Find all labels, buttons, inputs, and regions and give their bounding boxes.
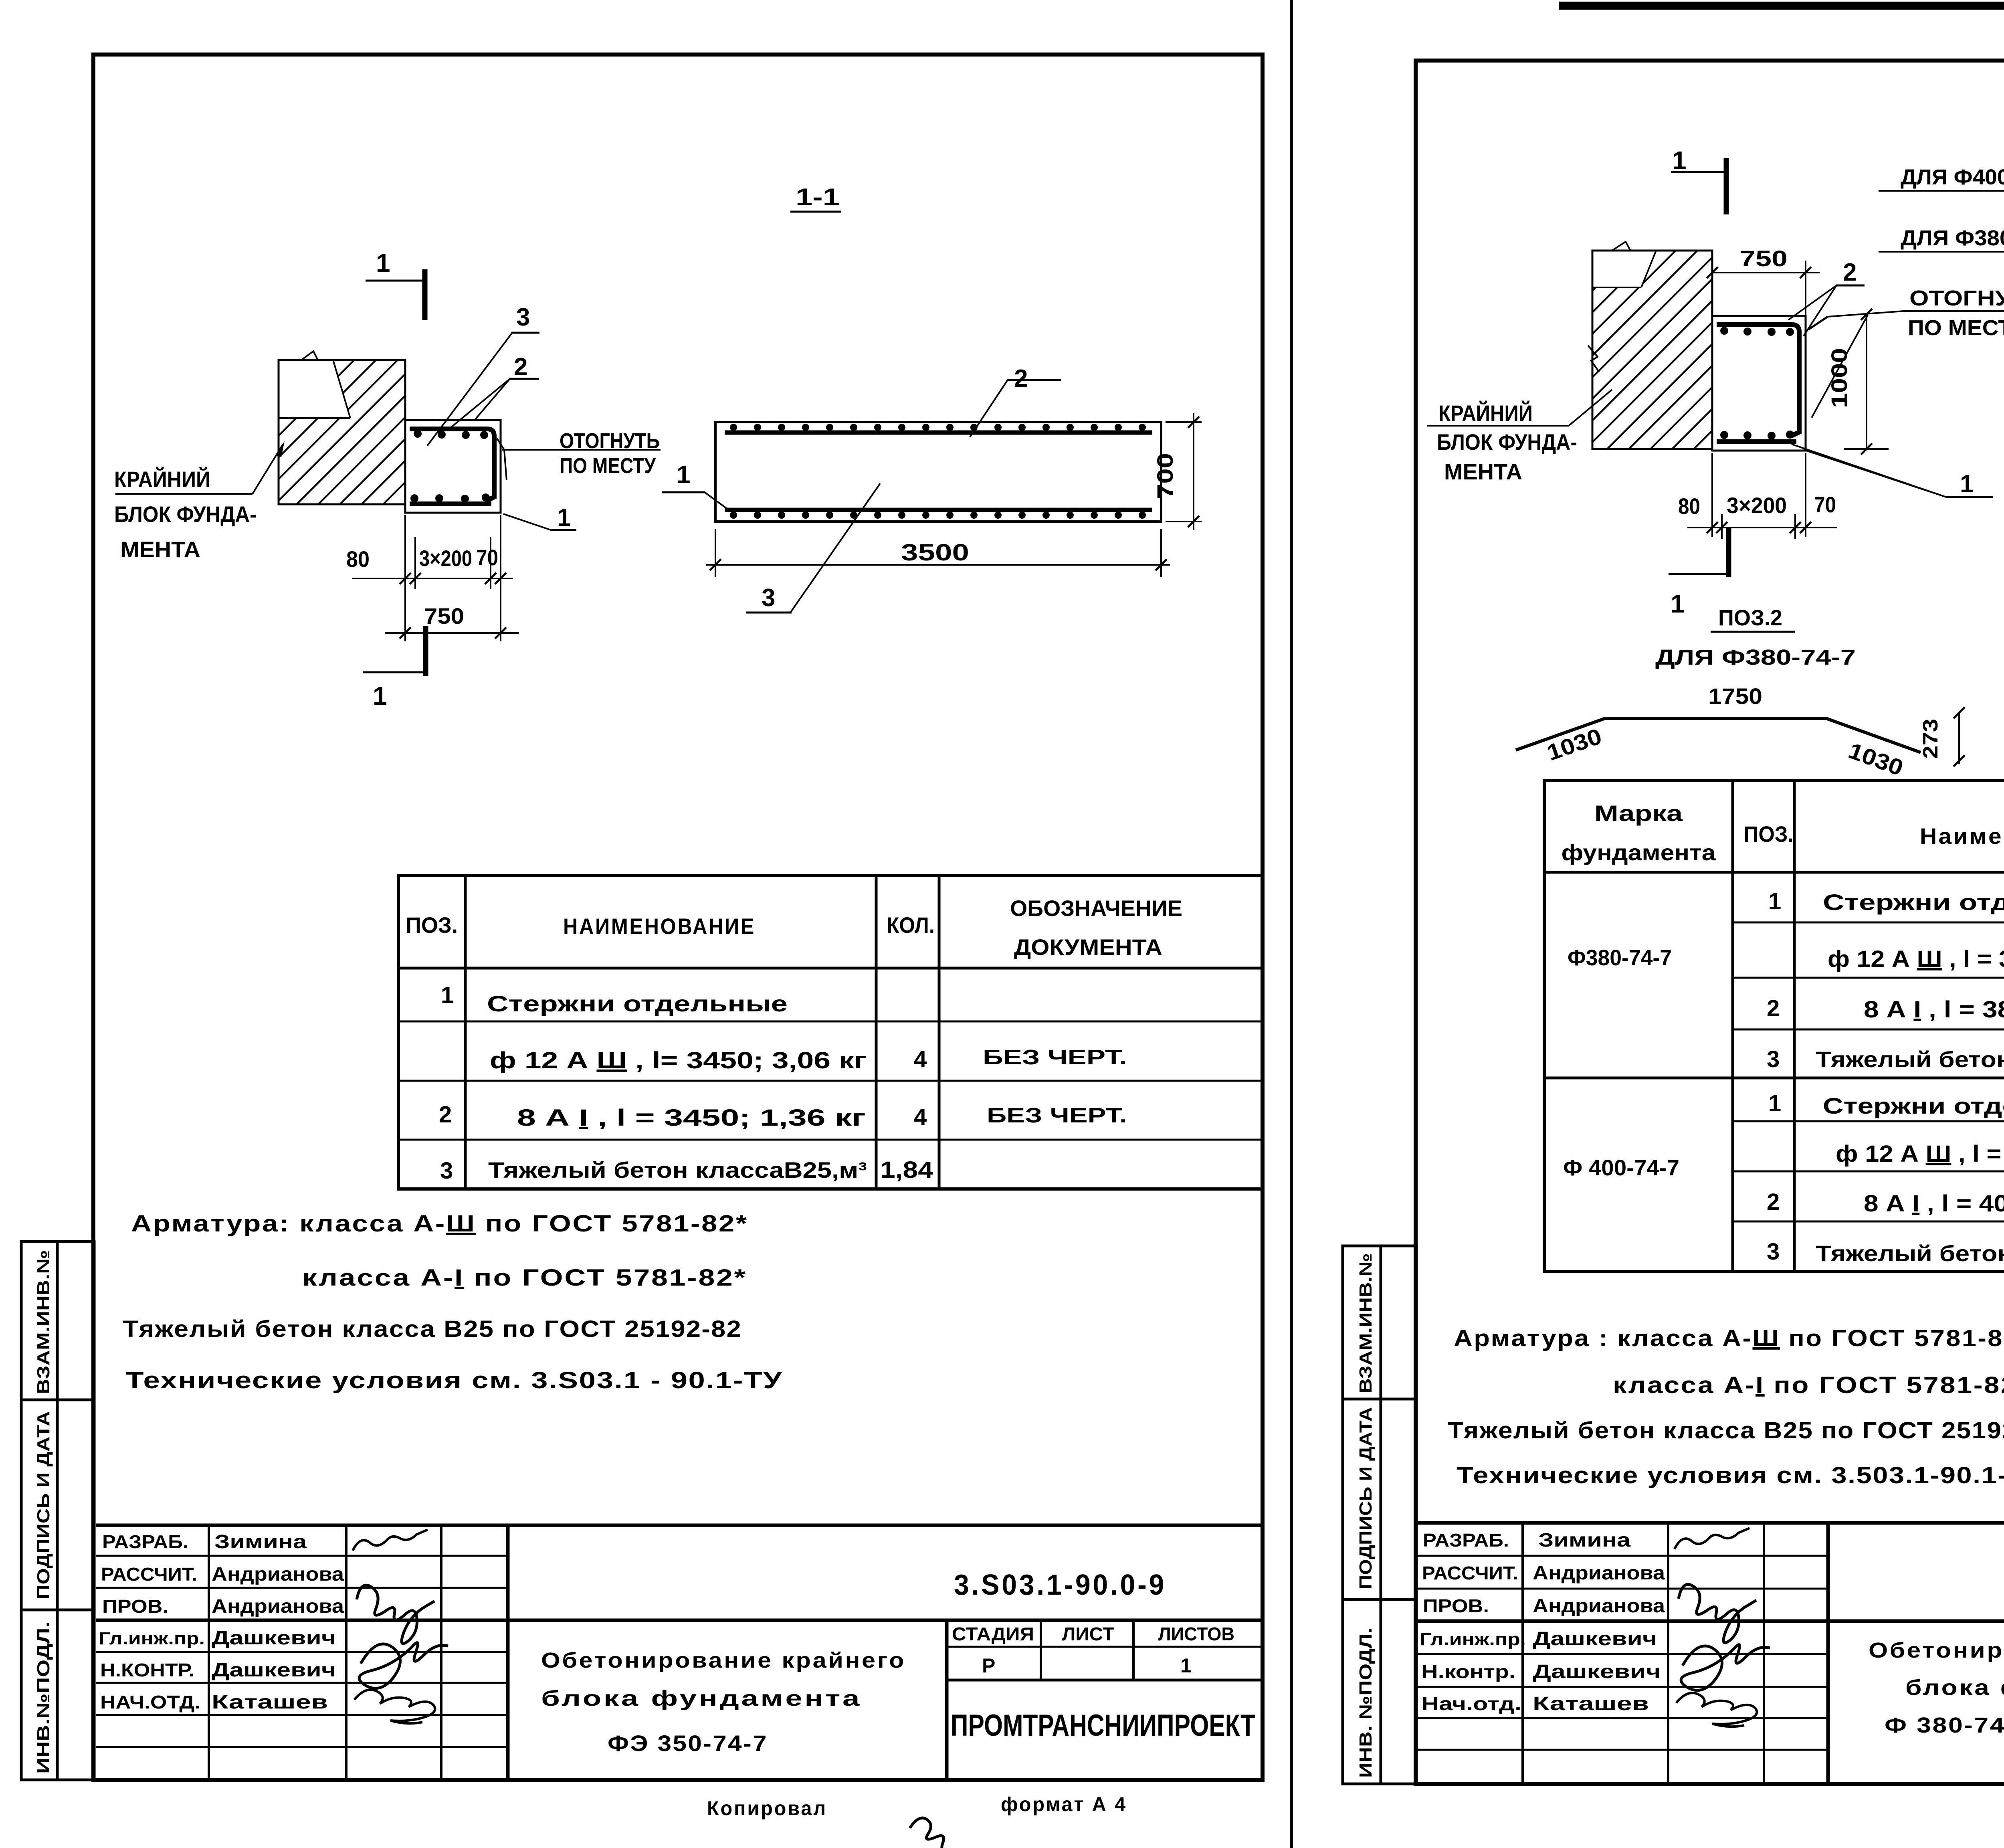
svg-text:1: 1 — [373, 681, 387, 710]
side stamp left: spare column box — [57, 1241, 94, 1780]
row line empty R — [1416, 1749, 1828, 1751]
bent bar F380 — [1516, 718, 1921, 752]
dim 3500 ext left — [715, 529, 716, 577]
svg-text:МЕНТА: МЕНТА — [1444, 459, 1522, 484]
svg-text:КРАЙНИЙ: КРАЙНИЙ — [114, 467, 210, 492]
svg-text:3: 3 — [1767, 1046, 1780, 1072]
svg-text:Тяжелый бетон класса В25 по: Тяжелый бетон класса В25 по ГОСТ 25192-8… — [1448, 1417, 2004, 1444]
svg-text:Каташев: Каташев — [1533, 1693, 1649, 1715]
otognut leader horizontal — [502, 449, 661, 451]
dim 3500 ticks — [710, 559, 1167, 570]
svg-text:Каташев: Каташев — [212, 1692, 328, 1713]
dim 700 ext top — [1166, 421, 1202, 423]
col line title big — [506, 1525, 510, 1780]
label 2 leader 1-1 — [970, 380, 1008, 437]
thick mid R left part — [1416, 1620, 1828, 1623]
row line r7 — [1733, 1221, 2004, 1223]
title block top R — [1416, 1521, 2004, 1525]
svg-text:70: 70 — [476, 545, 498, 570]
right table frame — [1544, 780, 2004, 1272]
svg-text:1: 1 — [1960, 470, 1974, 498]
row line 2 — [398, 1080, 1263, 1082]
svg-text:Арматура: класса А-Ш по ГОС: Арматура: класса А-Ш по ГОСТ 5781-82* — [131, 1211, 748, 1237]
row line r6 — [1733, 1171, 2004, 1173]
svg-text:БЛОК ФУНДА-: БЛОК ФУНДА- — [1437, 429, 1577, 455]
poz.2 left underline — [1711, 631, 1795, 633]
svg-text:Н.контр.: Н.контр. — [1421, 1661, 1515, 1682]
svg-text:ОТОГНУТЬ: ОТОГНУТЬ — [1909, 286, 2004, 310]
svg-text:Ф 400-74-7: Ф 400-74-7 — [1563, 1155, 1679, 1180]
svg-text:Стержни отдельные: Стержни отдельные — [487, 991, 788, 1016]
otognut R leader tick — [1808, 317, 1828, 330]
svg-text:3×200: 3×200 — [1727, 493, 1787, 518]
group divider thick — [1544, 1077, 2004, 1080]
col title big R — [1826, 1523, 1830, 1784]
notch white-out — [279, 360, 350, 418]
svg-text:3: 3 — [440, 1158, 453, 1184]
svg-text:8 А I , l = 3810 ; 1,50 кг: 8 А I , l = 3810 ; 1,50 кг — [1864, 997, 2004, 1023]
svg-text:РАССЧИТ.: РАССЧИТ. — [101, 1564, 197, 1585]
row line r3 — [1733, 1029, 2004, 1031]
table frame — [398, 875, 1263, 1189]
notch bottom line — [279, 417, 350, 419]
svg-text:1,84: 1,84 — [880, 1157, 933, 1183]
svg-text:Зимина: Зимина — [214, 1531, 307, 1553]
PAGE-LEFT — [21, 55, 1263, 1848]
side stamp divider 1 — [1343, 1398, 1416, 1401]
svg-text:80: 80 — [1678, 493, 1700, 519]
thick mid R — [1828, 1620, 2004, 1623]
title block bottom R — [1416, 1782, 2004, 1786]
jacket top rebar — [410, 429, 494, 501]
svg-text:Технические условия см. 3.503: Технические условия см. 3.503.1-90.1-ТУ — [1457, 1462, 2004, 1488]
ext lines R bottom — [1712, 453, 1806, 539]
svg-text:ф 12 А Ш , l= 3450; 3,06 кг: ф 12 А Ш , l= 3450; 3,06 кг — [490, 1047, 867, 1074]
svg-text:Технические условия см. 3.: Технические условия см. 3.S03.1 - 90.1-Т… — [125, 1367, 783, 1393]
svg-text:Ф380-74-7: Ф380-74-7 — [1568, 945, 1672, 970]
svg-text:Стержни отдельные: Стержни отдельные — [1823, 890, 2004, 915]
svg-text:3: 3 — [516, 303, 530, 331]
svg-text:4: 4 — [914, 1104, 927, 1130]
signature andrianova — [357, 1585, 434, 1644]
col line NAIM/KOL — [875, 875, 878, 1189]
dim 273 ticks — [1953, 707, 1965, 766]
dim 3500 ext right — [1160, 529, 1162, 577]
svg-text:2: 2 — [1014, 365, 1028, 392]
row line gl.inzh — [96, 1651, 508, 1653]
svg-text:273: 273 — [1919, 719, 1942, 759]
svg-text:МЕНТА: МЕНТА — [120, 537, 200, 562]
section mark top: horizontal line — [366, 280, 423, 282]
otognut R leader horiz — [1828, 311, 1903, 317]
row line nach.otd R — [1416, 1717, 1828, 1719]
svg-text:Дашкевич: Дашкевич — [1533, 1661, 1661, 1682]
svg-text:8 А I , l = 4050 ; 1,60 кг: 8 А I , l = 4050 ; 1,60 кг — [1864, 1191, 2004, 1217]
svg-text:Марка: Марка — [1594, 801, 1683, 826]
svg-text:Гл.инж.пр.: Гл.инж.пр. — [1420, 1630, 1526, 1649]
svg-text:Тяжелый бетон класса В25,м³: Тяжелый бетон класса В25,м³ — [1816, 1241, 2004, 1266]
1-1 title underline — [790, 211, 841, 213]
col line narrow — [440, 1525, 442, 1780]
svg-text:80: 80 — [346, 546, 370, 572]
row line n.kontr R — [1416, 1686, 1828, 1688]
svg-text:блока фундамента: блока фундамента — [541, 1686, 862, 1711]
svg-text:3×200: 3×200 — [419, 546, 472, 571]
svg-text:ДОКУМЕНТА: ДОКУМЕНТА — [1014, 934, 1162, 960]
svg-text:700: 700 — [1152, 453, 1178, 499]
svg-text:ф 12 А Ш , l = 3950; 3,51 кг: ф 12 А Ш , l = 3950; 3,51 кг — [1836, 1141, 2004, 1167]
svg-text:ДЛЯ Ф380-74-7: ДЛЯ Ф380-74-7 — [1901, 226, 2004, 250]
col signatures R — [1667, 1523, 1669, 1784]
section mark top R: horizontal — [1671, 171, 1725, 173]
title block top line — [96, 1524, 1263, 1527]
dim 750 R ext left tick — [1707, 267, 1811, 278]
svg-text:ЛИСТОВ: ЛИСТОВ — [1158, 1624, 1234, 1644]
label 3 underline 1-1 — [746, 612, 792, 614]
svg-text:Тяжелый бетон классаВ25,м³: Тяжелый бетон классаВ25,м³ — [488, 1157, 867, 1183]
svg-text:Дашкевич: Дашкевич — [1533, 1628, 1657, 1650]
svg-text:70: 70 — [1814, 492, 1836, 517]
otognut R underline — [1903, 310, 2004, 312]
col narrow R — [1763, 1523, 1765, 1784]
svg-text:8 А I , l = 3450; 1,36 кг: 8 А I , l = 3450; 1,36 кг — [517, 1105, 866, 1131]
label 2 R leader a — [1788, 285, 1836, 320]
stadiya header underline — [947, 1646, 1263, 1648]
signature dashkevich — [359, 1643, 448, 1688]
PAGE-RIGHT — [1343, 61, 2004, 1848]
svg-text:РАЗРАБ.: РАЗРАБ. — [1423, 1530, 1509, 1551]
svg-text:Дашкевич: Дашкевич — [212, 1628, 336, 1649]
signature katashev R — [1676, 1693, 1757, 1727]
svg-text:1: 1 — [1180, 1654, 1192, 1677]
dim 1000 R ticks — [1861, 309, 1872, 455]
dim 1000 R line — [1866, 314, 1867, 449]
bottom dots R — [1720, 431, 1794, 440]
svg-text:РАССЧИТ.: РАССЧИТ. — [1422, 1563, 1518, 1583]
ext line 3x200 start — [414, 537, 416, 589]
svg-text:Андрианова: Андрианова — [1533, 1563, 1665, 1584]
otognut leader prong bottom — [504, 450, 507, 480]
dim 700 ext bottom — [1166, 521, 1202, 522]
svg-text:НАЧ.ОТД.: НАЧ.ОТД. — [100, 1692, 200, 1713]
top dots — [730, 424, 1146, 431]
svg-text:3500: 3500 — [901, 540, 969, 566]
svg-text:Арматура : класса А-Ш по Г: Арматура : класса А-Ш по ГОСТ 5781-82* — [1454, 1325, 2004, 1351]
svg-text:Наименование: Наименование — [1920, 823, 2004, 849]
svg-text:СТАДИЯ: СТАДИЯ — [952, 1624, 1034, 1644]
svg-text:Зимина: Зимина — [1538, 1530, 1630, 1551]
svg-text:НАИМЕНОВАНИЕ: НАИМЕНОВАНИЕ — [563, 914, 756, 939]
beam outline 1-1 — [715, 422, 1161, 522]
section mark top R: thick tick — [1724, 158, 1729, 214]
svg-text:1-1: 1-1 — [796, 184, 840, 210]
svg-text:РАЗРАБ.: РАЗРАБ. — [102, 1531, 188, 1552]
svg-text:ФЭ 350-74-7: ФЭ 350-74-7 — [608, 1731, 768, 1756]
label 3 leader — [427, 333, 512, 446]
svg-text:2: 2 — [1767, 995, 1780, 1021]
section mark bottom: thick tick — [423, 626, 428, 676]
copier signature — [910, 1818, 954, 1848]
side stamp divider VZAM/PODPIS — [21, 1399, 94, 1401]
dim 700 ticks — [1188, 417, 1199, 527]
dim row line 1 — [1879, 190, 2004, 192]
dim 3500 line — [706, 564, 1170, 566]
svg-text:1: 1 — [376, 249, 390, 277]
side stamp divider 2 — [1343, 1598, 1416, 1601]
row line r5 — [1733, 1120, 2004, 1122]
dim line R bottom — [1687, 527, 1837, 528]
svg-text:4: 4 — [914, 1046, 927, 1072]
otognut leader prong top — [497, 439, 504, 450]
krayniy R leader horiz — [1427, 425, 1569, 427]
col line signatures — [345, 1525, 347, 1780]
svg-text:Нач.отд.: Нач.отд. — [1421, 1693, 1521, 1714]
krayniy leader diag — [253, 444, 283, 494]
svg-text:ПОДПИСЬ И ДАТА: ПОДПИСЬ И ДАТА — [34, 1411, 53, 1599]
top dots row — [414, 430, 488, 439]
signature katashev — [354, 1690, 435, 1723]
row line gl.inzh R — [1416, 1653, 1828, 1655]
svg-text:3: 3 — [762, 584, 775, 612]
svg-text:2: 2 — [439, 1102, 452, 1128]
svg-text:ф 12 А Ш , l = 3750 ; 3,33 кг: ф 12 А Ш , l = 3750 ; 3,33 кг — [1828, 946, 2004, 972]
svg-text:Андрианова: Андрианова — [212, 1564, 344, 1585]
section mark bottom R: horizontal — [1669, 573, 1727, 575]
svg-text:БЛОК ФУНДА-: БЛОК ФУНДА- — [114, 501, 257, 527]
sheet frame right page — [1416, 61, 2004, 1784]
svg-text:2: 2 — [514, 353, 527, 381]
side stamp right: spare column — [1381, 1246, 1416, 1784]
bottom dots row — [410, 493, 490, 503]
svg-text:1: 1 — [1672, 146, 1687, 175]
notch diagonal R — [1641, 251, 1656, 287]
label 2 leader a — [448, 379, 510, 430]
side stamp right: label column — [1343, 1246, 1381, 1784]
svg-text:Гл.инж.пр.: Гл.инж.пр. — [99, 1629, 205, 1648]
dim 750 ticks — [400, 627, 506, 639]
foundation block hatched R — [1592, 251, 1712, 449]
svg-text:Обетонирование крайнего: Обетонирование крайнего — [1869, 1638, 2004, 1662]
otognut R leader long diag — [1812, 315, 1868, 418]
section mark top: thick tick — [422, 269, 428, 320]
thick mid line — [96, 1619, 1263, 1622]
svg-text:ДЛЯ Ф400-74-7: ДЛЯ Ф400-74-7 — [1901, 165, 2004, 189]
svg-text:ПОЗ.: ПОЗ. — [1743, 821, 1794, 847]
ext line 3x200 end — [490, 537, 491, 589]
svg-text:Тяжелый бетон класса В25 по: Тяжелый бетон класса В25 по ГОСТ 25192-8… — [123, 1316, 742, 1342]
title block left page — [96, 1525, 1263, 1780]
svg-text:Р: Р — [982, 1654, 995, 1677]
dim 273 line — [1958, 713, 1960, 764]
section mark bottom: horizontal — [363, 671, 424, 673]
break zigzag left edge R — [1588, 346, 1599, 372]
materials table left page — [398, 875, 1263, 1189]
svg-text:Дашкевич: Дашкевич — [212, 1660, 336, 1681]
label 1 leader — [503, 514, 551, 530]
foundation block hatched — [279, 360, 405, 504]
svg-text:класса А-I по ГОСТ 5781-82: класса А-I по ГОСТ 5781-82* — [302, 1265, 747, 1291]
jacket outline R — [1712, 316, 1806, 451]
svg-text:3.S03.1-90.0-9: 3.S03.1-90.0-9 — [954, 1569, 1166, 1601]
svg-text:Тяжелый бетон класса В25,м³: Тяжелый бетон класса В25,м³ — [1816, 1047, 2004, 1072]
svg-text:ИНВ. №ПОДЛ.: ИНВ. №ПОДЛ. — [1356, 1628, 1376, 1778]
svg-text:ОБОЗНАЧЕНИЕ: ОБОЗНАЧЕНИЕ — [1010, 896, 1182, 921]
svg-text:ПО МЕСТУ: ПО МЕСТУ — [560, 454, 656, 478]
krayniy R leader diag — [1569, 390, 1612, 426]
col line names — [208, 1525, 210, 1780]
dim line 750 — [385, 632, 519, 634]
row line empty1 — [96, 1746, 508, 1748]
block outline R — [1592, 251, 1712, 449]
jacket bottom rebar R — [1717, 439, 1796, 444]
label 2 underline — [509, 378, 539, 380]
krayniy leader arrow — [276, 441, 285, 457]
svg-text:Андрианова: Андрианова — [1533, 1595, 1665, 1617]
page divider line — [1290, 0, 1293, 1848]
notch diagonal — [333, 360, 350, 418]
row line rasschit R — [1416, 1588, 1828, 1590]
svg-text:Ф 380-74-7, Ф400-74-7: Ф 380-74-7, Ф400-74-7 — [1885, 1713, 2004, 1737]
row line r2 — [1733, 977, 2004, 979]
dim ticks row1 — [400, 573, 506, 584]
svg-text:1: 1 — [1768, 1090, 1781, 1116]
svg-text:Обетонирование крайнего: Обетонирование крайнего — [541, 1648, 906, 1672]
label 1 R underline — [1946, 496, 1993, 498]
dim 750 R ext right — [1805, 261, 1806, 315]
svg-text:ПОДПИСЬ И ДАТА: ПОДПИСЬ И ДАТА — [1356, 1407, 1376, 1589]
svg-text:1750: 1750 — [1708, 683, 1762, 709]
section mark bottom R: thick tick — [1726, 528, 1731, 577]
side stamp divider PODPIS/INV — [21, 1609, 94, 1611]
svg-text:Стержни отдельные: Стержни отдельные — [1823, 1093, 2004, 1118]
scan top bar — [1559, 2, 2004, 10]
label 3 underline — [511, 332, 539, 334]
header bottom R — [1544, 871, 2004, 874]
label 1 underline 1-1 — [662, 491, 705, 493]
svg-text:3: 3 — [1767, 1239, 1780, 1265]
dim 750 R line — [1712, 272, 1820, 273]
title block bottom line — [96, 1778, 1263, 1782]
label 1 leader 1-1 — [705, 492, 729, 510]
break spike top edge R — [1612, 242, 1630, 251]
beam bottom rebar — [725, 508, 1152, 512]
svg-text:блока фундамента: блока фундамента — [1905, 1676, 2004, 1700]
signature zimina R — [1675, 1528, 1749, 1549]
row line 1 — [398, 1021, 1263, 1023]
list/listov divider — [1132, 1620, 1135, 1680]
dim line 80-3x200-70 — [352, 578, 513, 579]
ext line 70 right — [500, 515, 501, 641]
svg-text:БЕЗ ЧЕРТ.: БЕЗ ЧЕРТ. — [987, 1104, 1127, 1127]
svg-text:1: 1 — [1671, 589, 1685, 618]
concrete jacket outline — [405, 420, 501, 513]
svg-text:1: 1 — [557, 504, 571, 532]
top dots R — [1720, 327, 1794, 336]
row line r1 — [1733, 922, 2004, 924]
label 2 R leader b — [1804, 285, 1836, 336]
notch white-out R — [1592, 251, 1656, 287]
row line razrab — [96, 1555, 508, 1557]
svg-text:1: 1 — [677, 461, 690, 489]
notch bottom R — [1592, 287, 1641, 288]
svg-text:750: 750 — [424, 603, 464, 629]
beam top rebar — [725, 431, 1152, 435]
row line razrab R — [1416, 1555, 1828, 1557]
side stamp left: label column box — [21, 1241, 57, 1780]
svg-text:ПОЗ.2: ПОЗ.2 — [1718, 605, 1782, 630]
notes left page — [123, 1211, 783, 1393]
label 2 leader b — [475, 379, 510, 420]
signature zimina — [353, 1530, 428, 1551]
dim 700 line — [1193, 413, 1194, 530]
svg-text:1: 1 — [441, 982, 454, 1008]
dim ticks R bottom — [1707, 522, 1811, 533]
label 2 underline 1-1 — [1007, 379, 1061, 381]
svg-text:класса А-I по ГОСТ 5781-82*: класса А-I по ГОСТ 5781-82* — [1613, 1372, 2004, 1398]
row line nach.otd — [96, 1714, 508, 1716]
svg-text:ДЛЯ Ф380-74-7: ДЛЯ Ф380-74-7 — [1655, 645, 1856, 669]
svg-text:КОЛ.: КОЛ. — [887, 912, 935, 938]
col poz R — [1793, 780, 1796, 1272]
svg-text:Андрианова: Андрианова — [212, 1596, 344, 1617]
svg-text:ИНВ.№ПОДЛ.: ИНВ.№ПОДЛ. — [34, 1622, 53, 1774]
col line KOL/OBOZN — [938, 875, 941, 1189]
col line POZ — [464, 875, 467, 1189]
svg-text:ПРОМТРАНСНИИПРОЕКТ: ПРОМТРАНСНИИПРОЕКТ — [951, 1708, 1255, 1743]
svg-text:Копировал: Копировал — [707, 1797, 827, 1820]
svg-text:ПОЗ.: ПОЗ. — [406, 912, 458, 938]
col names R — [1521, 1523, 1524, 1784]
dim 1000 R ext bottom — [1844, 448, 1889, 450]
jacket top rebar R — [1717, 325, 1799, 436]
footer left page — [707, 1793, 1127, 1848]
svg-text:БЕЗ ЧЕРТ.: БЕЗ ЧЕРТ. — [983, 1046, 1127, 1069]
svg-text:КРАЙНИЙ: КРАЙНИЙ — [1438, 400, 1533, 426]
jacket bottom rebar — [410, 501, 491, 506]
svg-text:ПРОВ.: ПРОВ. — [1423, 1595, 1489, 1616]
signature dashkevich R — [1681, 1645, 1770, 1690]
svg-text:ВЗАМ.ИНВ.№: ВЗАМ.ИНВ.№ — [1356, 1253, 1376, 1393]
header bottom line — [398, 967, 1263, 970]
svg-text:1: 1 — [1768, 888, 1781, 914]
stadiya row bottom — [947, 1679, 1263, 1682]
row line rasschit — [96, 1587, 508, 1589]
svg-text:Н.КОНТР.: Н.КОНТР. — [100, 1660, 194, 1680]
col marka — [1731, 780, 1734, 1272]
svg-text:1000: 1000 — [1826, 348, 1852, 408]
row line 3 — [398, 1139, 1263, 1141]
block outline — [279, 360, 405, 504]
svg-text:2: 2 — [1767, 1189, 1780, 1215]
label 3 leader 1-1 — [790, 483, 880, 613]
svg-text:ПРОВ.: ПРОВ. — [102, 1596, 168, 1617]
svg-text:фундамента: фундамента — [1562, 840, 1716, 865]
ext line 80 left — [404, 515, 406, 641]
krayniy leader horiz — [115, 493, 253, 495]
bottom dots — [730, 512, 1146, 519]
sheet frame left page — [93, 55, 1263, 1780]
svg-text:формат А 4: формат А 4 — [1001, 1793, 1127, 1816]
col line stadiya — [945, 1620, 949, 1780]
label 1 underline — [550, 529, 576, 531]
stadiya/list divider — [1040, 1620, 1042, 1680]
label 1 R leader a — [1792, 444, 1946, 497]
svg-text:2: 2 — [1843, 259, 1857, 286]
svg-text:ПО МЕСТУ: ПО МЕСТУ — [1908, 316, 2004, 340]
svg-text:ЛИСТ: ЛИСТ — [1062, 1624, 1114, 1644]
dim row line 2 — [1879, 251, 2004, 253]
label 1 R leader b — [1804, 450, 1946, 497]
